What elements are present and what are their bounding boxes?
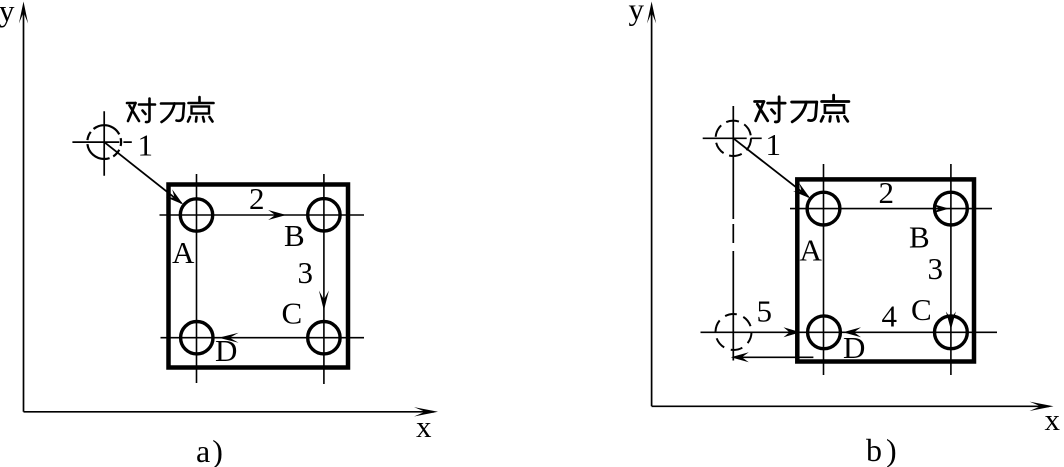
svg-text:a): a)	[196, 433, 225, 467]
path arrow 4 head C to D (b)	[843, 327, 861, 337]
char 对	[127, 99, 155, 123]
tool point vertical crosshair (a)	[103, 111, 105, 176]
svg-text:5: 5	[757, 294, 773, 329]
char 点	[188, 97, 214, 122]
plate outline (b)	[797, 179, 974, 361]
svg-text:C: C	[911, 292, 932, 327]
hole col1 centerline (b)	[823, 164, 825, 375]
path arrow 3 head (b)	[946, 312, 956, 330]
path arrow 1 line (b)	[733, 138, 808, 197]
tool point horizontal crosshair (a)	[72, 141, 131, 143]
hole row2 centerline (a)	[161, 337, 365, 339]
return path line (b)	[735, 356, 813, 358]
path arrow 5 head at plate edge (b)	[784, 327, 801, 337]
hole row1 centerline (b)	[790, 208, 992, 210]
svg-text:A: A	[800, 233, 823, 268]
hole row2 centerline (b)	[701, 331, 998, 333]
svg-text:y: y	[0, 0, 15, 28]
svg-text:3: 3	[928, 251, 944, 286]
hole col2 centerline (b)	[950, 164, 952, 375]
svg-text:y: y	[629, 0, 645, 27]
path arrow 2 head (b)	[933, 204, 949, 213]
svg-text:2: 2	[249, 181, 265, 216]
hole D (b)	[808, 316, 841, 349]
path arrow 3 head (a)	[319, 291, 329, 311]
tool-setting point circle (a)	[87, 125, 121, 159]
x axis (b)	[652, 405, 1049, 407]
y axis (b)	[651, 8, 653, 406]
svg-text:x: x	[1045, 402, 1061, 437]
y axis (a)	[23, 8, 25, 412]
svg-text:1: 1	[766, 127, 782, 162]
hole B (a)	[308, 199, 340, 231]
svg-text:B: B	[284, 218, 305, 253]
svg-text:D: D	[843, 330, 865, 365]
path arrow 1 head (b)	[793, 183, 810, 198]
y axis arrowhead (a)	[19, 2, 28, 24]
svg-text:4: 4	[882, 299, 898, 334]
tool point horizontal crosshair (b)	[703, 137, 762, 139]
lowered start dashed circle (b)	[716, 314, 752, 350]
char 对	[755, 97, 786, 122]
hole col1 centerline (a)	[196, 174, 198, 383]
svg-text:B: B	[909, 220, 930, 255]
y axis arrowhead (b)	[647, 2, 656, 24]
svg-text:C: C	[282, 296, 303, 331]
vertical dash-dot centerline through start points (b)	[732, 106, 734, 361]
hole row1 centerline (a)	[160, 214, 365, 216]
svg-text:b): b)	[866, 432, 901, 467]
label 对刀点 (b)	[755, 95, 849, 122]
label 对刀点 (a)	[127, 97, 214, 122]
x axis arrowhead (b)	[1030, 402, 1054, 411]
return path arrowhead (b)	[731, 352, 749, 362]
svg-text:3: 3	[298, 255, 314, 290]
hole C (a)	[308, 322, 340, 354]
char 点	[821, 95, 849, 121]
hole A (a)	[180, 199, 212, 231]
svg-text:x: x	[416, 409, 432, 444]
x axis arrowhead (a)	[414, 407, 438, 416]
plate outline (a)	[169, 185, 349, 368]
svg-text:A: A	[172, 235, 195, 270]
svg-text:D: D	[215, 333, 237, 368]
path arrow 2 head (a)	[268, 210, 286, 220]
path arrow 1 line (a)	[104, 142, 181, 203]
path arrow 1 head (a)	[166, 189, 183, 204]
hole A (b)	[807, 192, 840, 225]
svg-text:1: 1	[138, 128, 154, 163]
x axis (a)	[24, 411, 435, 413]
hole D (a)	[181, 322, 213, 354]
path arrow 4 head C to D (a)	[219, 333, 239, 343]
char 刀	[161, 104, 184, 123]
svg-text:2: 2	[879, 175, 895, 210]
hole col2 centerline (a)	[323, 174, 325, 384]
hole C (b)	[935, 316, 968, 349]
tool-setting point dashed circle (b)	[716, 121, 751, 156]
char 刀	[792, 102, 817, 122]
hole B (b)	[935, 192, 968, 225]
